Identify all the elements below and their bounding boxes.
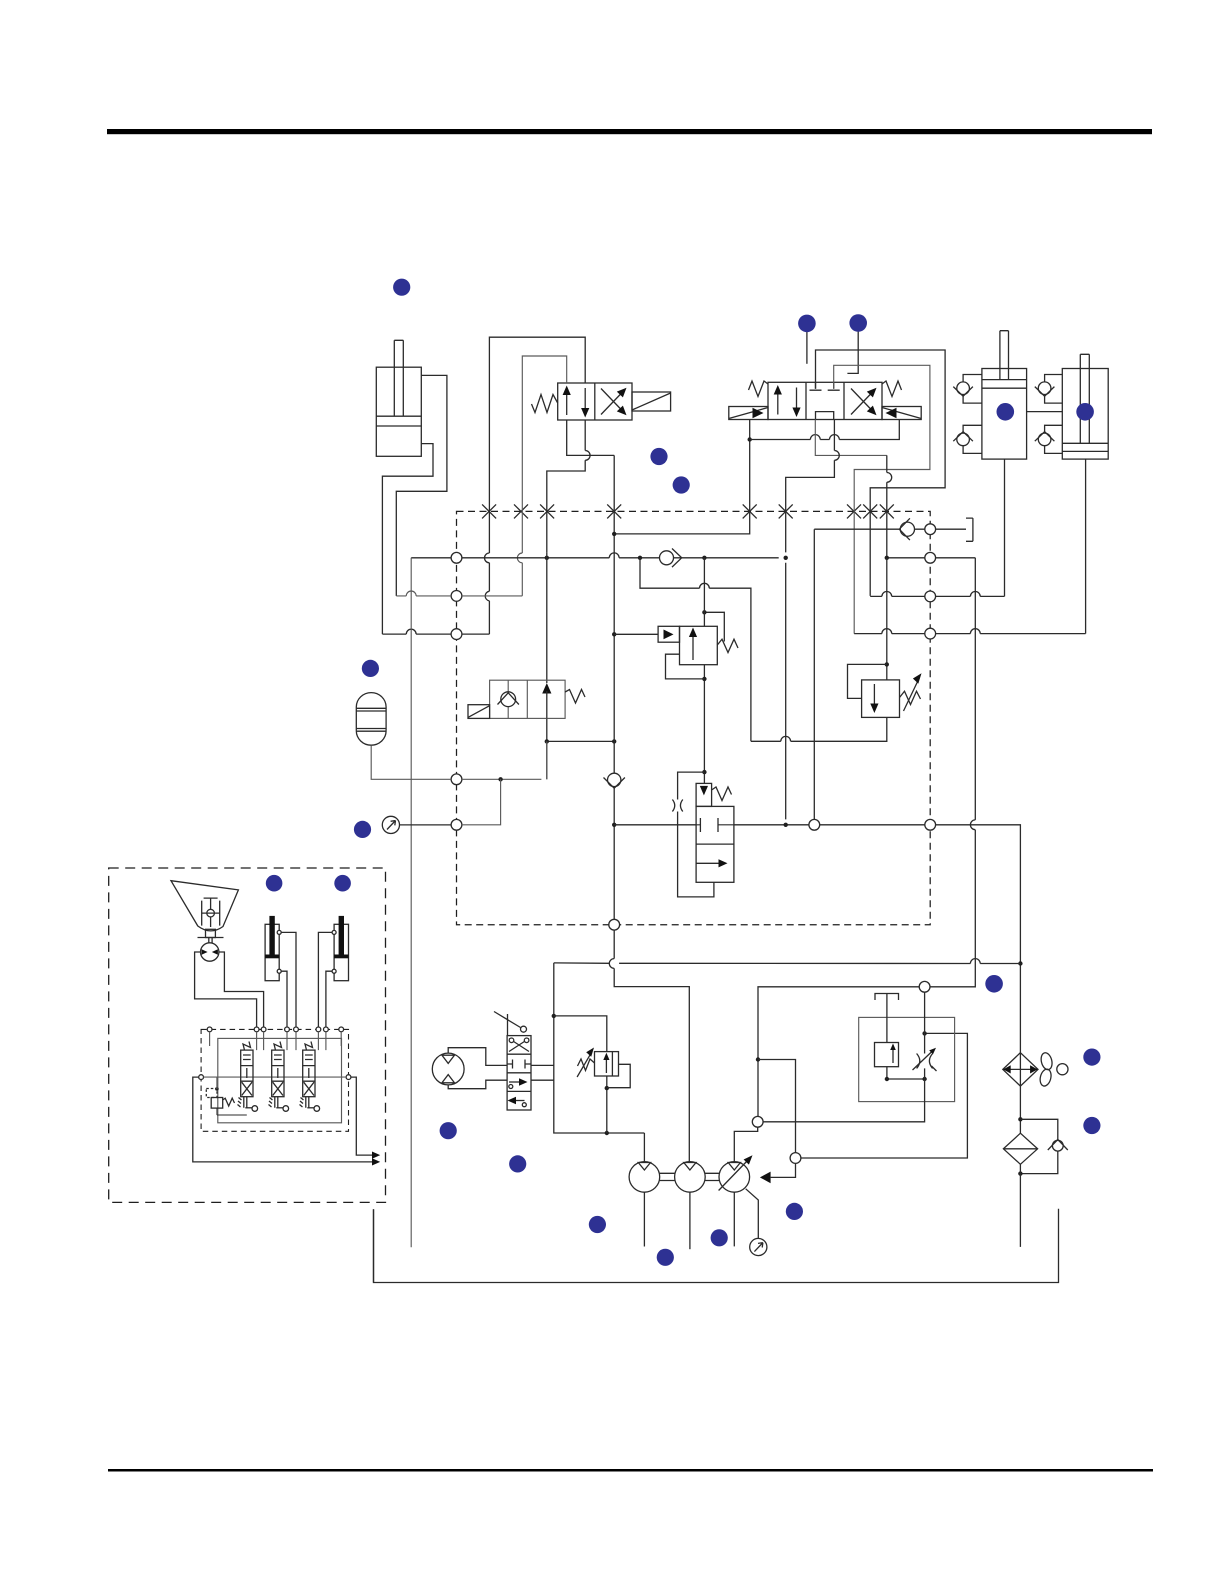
- gear pump P1: [629, 1162, 660, 1193]
- junction on row 1 at relief feed: [702, 556, 706, 560]
- inset cylinder C6: [334, 924, 348, 980]
- wire cooler to filter: [1019, 1086, 1021, 1133]
- wire motor M2 hose left: [195, 952, 257, 1029]
- shaft coupling P2-P3: [705, 1173, 719, 1180]
- V1 outer loop wire: [489, 337, 585, 634]
- solenoid valve V2 (3-position) body: [768, 382, 882, 419]
- solenoid valve V1 body: [558, 383, 632, 420]
- blue callout dots: [266, 279, 1101, 1266]
- C4 pilot check bottom: [1035, 425, 1063, 453]
- wire filter outlet to tank: [1019, 1164, 1021, 1247]
- wire C3 base to row R3: [1004, 459, 1006, 596]
- wire row R4: [854, 633, 1085, 635]
- cooler fan: [1038, 1052, 1068, 1088]
- cylinder C4 (right pair, right): [1062, 354, 1108, 459]
- spinner hydraulic motor M2: [201, 943, 219, 961]
- wire relief return loop: [640, 558, 887, 742]
- port circle P-B2 on dashed boundary: [925, 552, 936, 563]
- V2 springs: [749, 381, 769, 397]
- block internal relief cartridge: [875, 1043, 899, 1067]
- wire charge line to pump P3 supply: [758, 558, 975, 1117]
- inset cylinder C5: [265, 924, 279, 980]
- wire through solenoid valve U2: [547, 552, 614, 779]
- pilot line P2 to right side: [834, 365, 930, 633]
- wire row 3: [382, 633, 489, 635]
- spool section S3: [300, 1042, 320, 1112]
- wire P3 suction with port circle: [752, 1116, 763, 1127]
- quick-disconnect X marks on dashed boundary: [482, 504, 894, 518]
- wire row 1: [411, 557, 779, 559]
- control valve bank dashed enclosure: [201, 1029, 348, 1131]
- check valve CV2 on return line: [608, 773, 621, 786]
- wire C4 base to row R4: [1085, 459, 1087, 633]
- junction on row 1 at check valve branch: [638, 556, 642, 560]
- bank relief valve: [206, 1089, 247, 1116]
- U2 spring: [565, 690, 585, 704]
- variable displacement pump P3: [719, 1162, 750, 1193]
- V1 spring: [532, 395, 558, 413]
- junction on row 1 at valve V2 return: [784, 556, 788, 560]
- spool section S1: [238, 1042, 258, 1112]
- wire branch to gauge port: [462, 779, 501, 825]
- V1 right cell crossed arrows: [601, 388, 627, 415]
- port circle P-C on bottom dashed edge: [609, 919, 620, 930]
- port circle P-A1 on dashed boundary: [451, 552, 462, 563]
- hopper funnel: [171, 881, 238, 931]
- dashed manifold boundary: [457, 511, 931, 924]
- adjustable relief valve R2: [862, 680, 900, 718]
- adjustable relief valve R3: [595, 1052, 619, 1076]
- port circle P-A2 on dashed boundary: [451, 591, 462, 602]
- P3 displacement control piston: [760, 1172, 771, 1184]
- wire main return x614 to pump P2: [614, 455, 689, 1161]
- V1 inner loop wire: [522, 356, 566, 596]
- V2 center cup left wire: [815, 420, 887, 456]
- wire inset return to tank rail: [373, 1209, 375, 1282]
- pilot-operated relief valve R1: [658, 626, 717, 664]
- pressure gauge G1: [382, 816, 399, 833]
- bank port circles: [199, 1027, 351, 1080]
- solenoid cartridge valve U2: [490, 680, 565, 718]
- needle valve N1: [917, 1054, 933, 1069]
- port circle P-B1 on dashed boundary: [925, 524, 936, 535]
- spool section S2: [269, 1042, 289, 1112]
- port circle P-B4 on dashed boundary: [925, 628, 936, 639]
- port circle P-B3 on dashed boundary: [925, 591, 936, 602]
- gear pump P2: [675, 1162, 706, 1193]
- U2 solenoid coil: [468, 705, 490, 719]
- wire supply drop to pump P1: [554, 963, 645, 1133]
- C4 pilot check top: [1035, 375, 1063, 404]
- port circle P-B5 on dashed boundary: [925, 819, 936, 830]
- V2 left solenoid: [729, 407, 768, 420]
- filter bypass check valve: [1020, 1119, 1057, 1173]
- wire relief R3 feed: [554, 1016, 607, 1133]
- spreader option dashed enclosure: [109, 868, 386, 1202]
- wire motor loop to valve V3: [448, 1048, 507, 1066]
- wire motor M2 hose right: [219, 952, 264, 1029]
- C3 pilot check bottom: [953, 425, 982, 453]
- wire needle valve line through block: [763, 992, 925, 1122]
- wire R3 bypass loop: [607, 1064, 630, 1087]
- pilot line P1 to right side: [816, 350, 946, 596]
- bank housing frame: [218, 1038, 342, 1122]
- wire cylinder rod-side port: [396, 375, 447, 596]
- C3 pilot check top: [953, 375, 982, 404]
- wire cylinder base-side port: [382, 444, 433, 634]
- wire load sense line to manifold block: [801, 1033, 968, 1158]
- wire bank pressure bus: [204, 1076, 347, 1078]
- wire drain line x411: [410, 558, 412, 1248]
- manifold block B1: [859, 1017, 955, 1101]
- V2 crossover wire to right end port: [750, 420, 900, 440]
- bump V1 outer over row1/row2: [485, 553, 490, 601]
- bottom rule: [108, 1469, 1153, 1472]
- V2 center cup right wire: [786, 420, 835, 553]
- cylinder C3 (right pair, left): [982, 331, 1027, 459]
- wire V3 outlet connections: [531, 1065, 554, 1080]
- V3 hand lever: [494, 1012, 521, 1036]
- junction on row 1 at accumulator branch: [545, 556, 549, 560]
- V1 left cell arrows: [563, 386, 590, 418]
- wire down from cup-left corner: [886, 455, 888, 557]
- wire supply header line: [554, 962, 1021, 965]
- V2 center cell blocked ports: [810, 382, 840, 419]
- spinner gearbox symbol: [202, 898, 220, 927]
- wire port stubs into sections: [210, 1032, 342, 1050]
- shaft coupling P1-P2: [659, 1173, 675, 1180]
- accumulator A1: [356, 693, 386, 746]
- flow control valve U3 with bypass orifice: [678, 772, 714, 897]
- wire bank supply and return with arrows: [193, 1077, 376, 1162]
- V1 bottom port wires: [567, 420, 615, 455]
- plugged port above block: [875, 994, 899, 1043]
- wire drop from row 1 end: [785, 563, 787, 820]
- reservoir tank: [374, 1209, 1059, 1283]
- R1 spring: [717, 639, 738, 652]
- hydraulic motor M1: [432, 1053, 464, 1085]
- manual spool valve V3: [507, 1036, 531, 1110]
- wire main pressure line to cooler: [614, 825, 1020, 1053]
- wire charge branch to control port: [758, 1060, 796, 1153]
- top rule: [107, 129, 1152, 134]
- port circle P-A4 on dashed boundary: [451, 774, 462, 785]
- V2 pilot stub from blue dot B: [847, 332, 858, 374]
- wire pilot tap to relief R1 spring: [704, 612, 724, 641]
- port circle P-A5 on dashed boundary: [451, 819, 462, 830]
- R1 pilot from row: [614, 633, 658, 635]
- wire row 2: [396, 595, 522, 597]
- V2 left cell arrows: [774, 385, 801, 417]
- V1 solenoid: [632, 392, 671, 411]
- wire row R2: [887, 557, 976, 559]
- spinner shaft coupling: [198, 929, 224, 943]
- V2 left port wire with junction: [614, 420, 750, 534]
- wire relief R1 feed line: [703, 558, 705, 784]
- port circle P-A3 on dashed boundary: [451, 629, 462, 640]
- oil cooler HX1: [1003, 1053, 1038, 1086]
- wire accumulator line: [371, 741, 547, 779]
- V2 pilot stub from blue dot A: [806, 332, 808, 364]
- pressure gauge G2: [746, 1189, 759, 1239]
- wire feed to relief R2: [886, 558, 888, 680]
- wire row R3: [870, 595, 1004, 597]
- cylinder (top left): [376, 340, 421, 456]
- wire between C3 and C4: [1027, 411, 1063, 413]
- wire R2 pilot loop: [848, 664, 887, 698]
- V2 right cell crossed arrows: [851, 388, 877, 415]
- wire row R1 with plugged port: [814, 528, 966, 530]
- return filter F1: [1003, 1133, 1037, 1164]
- R1 drain loop: [666, 654, 705, 679]
- wire drop from row R1: [813, 529, 815, 819]
- check valve CV1 on row 1: [660, 551, 674, 565]
- V2 right solenoid: [882, 407, 921, 420]
